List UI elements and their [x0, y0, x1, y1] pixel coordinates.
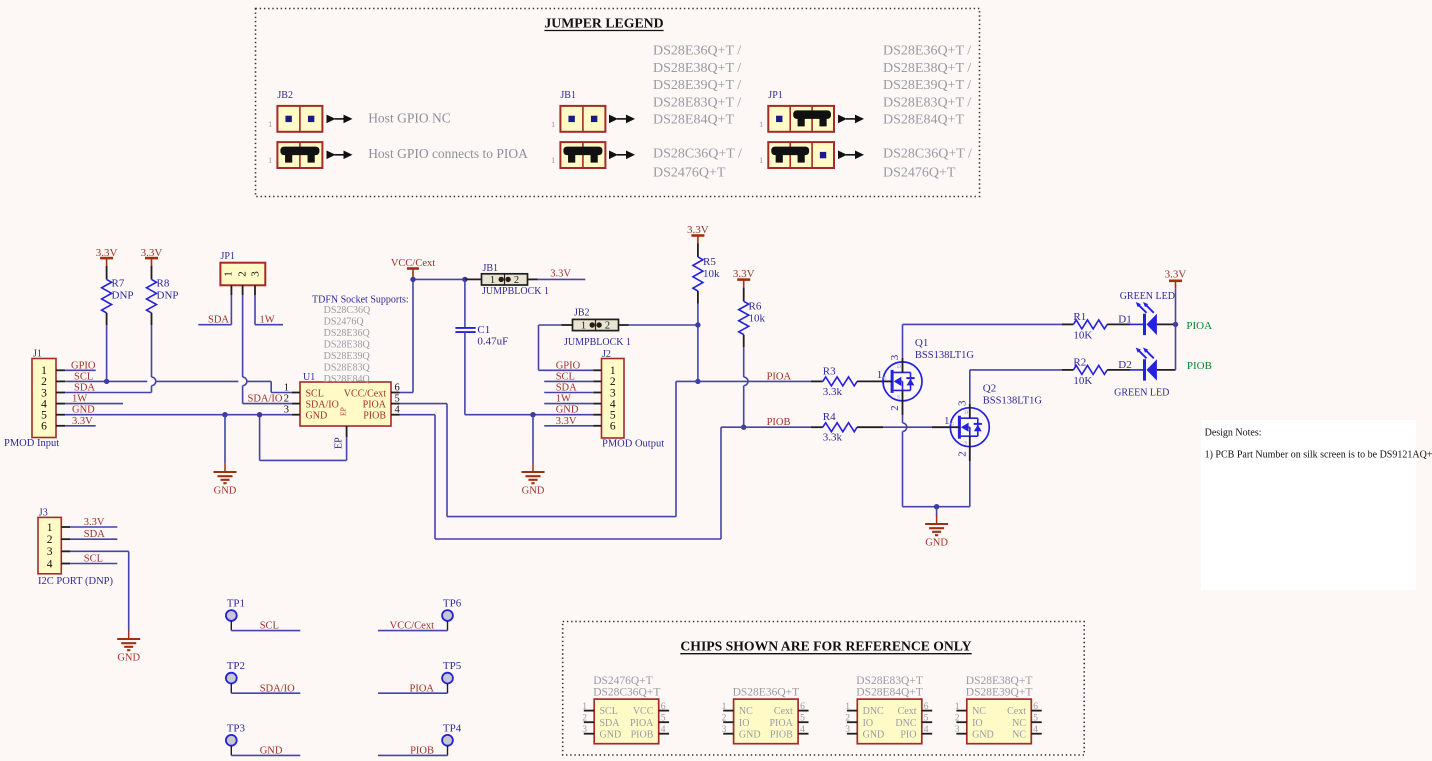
wire ground bus [903, 506, 970, 508]
svg-text:1: 1 [268, 119, 272, 129]
svg-text:SDA/IO: SDA/IO [248, 394, 283, 405]
legend text JP1 bottom device list [883, 147, 972, 181]
ground symbol at J1 side [214, 463, 237, 497]
svg-text:GND: GND [556, 405, 579, 416]
svg-text:3.3V: 3.3V [556, 416, 577, 427]
svg-text:VCC/Cext: VCC/Cext [390, 621, 434, 632]
net label 1W at J1 [65, 394, 123, 405]
svg-text:1W: 1W [556, 394, 571, 405]
net label SCL at J2 [544, 371, 593, 382]
svg-text:5: 5 [1033, 714, 1038, 724]
svg-text:1: 1 [551, 119, 555, 129]
svg-text:1: 1 [581, 321, 586, 332]
svg-text:2: 2 [722, 714, 727, 724]
wire PIOA from U1 pin5 [400, 381, 698, 516]
svg-text:PIOB: PIOB [1187, 360, 1212, 372]
J3 label I2C PORT (DNP) [38, 576, 114, 587]
reference chip DS28E38Q/DS28E39Q [955, 675, 1042, 744]
resistor R7 [102, 266, 134, 381]
svg-text:Cext: Cext [898, 706, 917, 717]
wire Q2 drain to R2 line [970, 370, 1062, 418]
net label GPIO at J1 [65, 360, 96, 371]
svg-text:2: 2 [955, 714, 960, 724]
svg-text:PIOB: PIOB [363, 411, 386, 422]
resistor R1 [1062, 311, 1130, 342]
legend text Host GPIO connects to PIOA [368, 146, 528, 161]
svg-text:0.47uF: 0.47uF [477, 336, 508, 348]
svg-text:R4: R4 [823, 411, 836, 423]
svg-text:TP3: TP3 [227, 722, 246, 734]
svg-text:2: 2 [605, 321, 610, 332]
svg-text:PIOA: PIOA [1186, 320, 1212, 332]
jumper legend title [544, 16, 663, 31]
wire Q1 source to ground bus [903, 390, 907, 506]
resistor R5 [693, 244, 720, 326]
svg-text:DS28E39Q: DS28E39Q [324, 351, 371, 362]
power 3.3V at R8 [141, 247, 163, 266]
svg-text:GREEN LED: GREEN LED [1114, 387, 1169, 398]
svg-text:PMOD Input: PMOD Input [4, 438, 59, 449]
svg-text:1) PCB Part Number on silk scr: 1) PCB Part Number on silk screen is to … [1205, 450, 1432, 461]
junction R5/JB2 [695, 322, 700, 327]
svg-text:GND: GND [972, 729, 994, 740]
svg-text:DS28E84Q: DS28E84Q [324, 374, 371, 385]
svg-text:TDFN Socket Supports:: TDFN Socket Supports: [312, 295, 409, 306]
svg-text:DNC: DNC [895, 718, 916, 729]
legend jumper JP1 top (2-3 shunted) [759, 106, 834, 132]
svg-text:DS2476Q+T: DS2476Q+T [593, 675, 653, 687]
ground symbol at transistors [925, 515, 948, 549]
wire J3 pin3 to ground [70, 551, 129, 630]
wire SDA/IO from JP1 pin2 to U1 pin2 [243, 295, 292, 405]
jumper block JB1 [482, 263, 549, 297]
svg-text:3.3k: 3.3k [823, 432, 843, 444]
svg-text:R7: R7 [112, 278, 125, 290]
svg-text:4: 4 [924, 725, 929, 735]
svg-text:PIOA: PIOA [767, 371, 792, 382]
svg-text:DS2476Q+T: DS2476Q+T [653, 166, 726, 181]
svg-text:GND: GND [306, 411, 328, 422]
svg-text:NC: NC [739, 706, 753, 717]
junction VCC/Cext at power stem [410, 277, 415, 282]
text supported device list [324, 305, 371, 385]
svg-text:GND: GND [117, 653, 140, 664]
svg-text:EP: EP [339, 407, 348, 416]
svg-text:CHIPS SHOWN ARE FOR REFERENCE: CHIPS SHOWN ARE FOR REFERENCE ONLY [680, 639, 971, 654]
reference chip DS2476Q/DS28C36Q [582, 675, 669, 744]
junction GND at J2 ground symbol [530, 412, 535, 417]
svg-text:Q2: Q2 [983, 383, 996, 395]
legend jumper JP1 label [768, 90, 782, 101]
resistor R4 [811, 411, 950, 444]
junction D1 at 3.3V rail [1173, 322, 1178, 327]
net label SDA at J2 [544, 383, 593, 394]
wire SDA from J1 pin3 to R8 [65, 325, 156, 394]
svg-text:6: 6 [1033, 702, 1038, 712]
svg-text:DNC: DNC [863, 706, 884, 717]
svg-text:3.3V: 3.3V [1165, 269, 1187, 281]
reference chips title [680, 639, 971, 654]
svg-text:4: 4 [800, 725, 805, 735]
resistor R8 [147, 266, 179, 325]
svg-text:6: 6 [661, 702, 666, 712]
svg-text:Cext: Cext [1007, 706, 1026, 717]
svg-text:SDA/IO: SDA/IO [260, 683, 295, 694]
svg-text:10K: 10K [1073, 375, 1092, 387]
svg-text:3: 3 [956, 400, 968, 406]
wire PIOB from U1 pin4 [400, 415, 744, 539]
svg-text:DS28E36Q+T /: DS28E36Q+T / [883, 44, 971, 59]
svg-text:1: 1 [582, 702, 587, 712]
svg-text:DS28E38Q+T /: DS28E38Q+T / [653, 61, 741, 76]
svg-text:Host GPIO connects to PIOA: Host GPIO connects to PIOA [368, 146, 528, 161]
net label SDA at J3 [70, 529, 117, 540]
net label SDA at JP1 pin1 [198, 295, 231, 326]
reference chips border [563, 622, 1084, 756]
ground symbol at J3 [117, 630, 140, 664]
svg-text:SCL: SCL [84, 554, 103, 565]
wire GND stem J2 side [532, 415, 534, 463]
svg-text:3: 3 [955, 725, 960, 735]
junction GND at EP return [257, 412, 262, 417]
svg-text:3: 3 [582, 725, 587, 735]
power 3.3V at R5 [687, 224, 709, 244]
svg-text:TP6: TP6 [443, 598, 462, 610]
power 3.3V at R6 [733, 268, 755, 287]
wire ground stem at bus [936, 507, 938, 516]
svg-text:GND: GND [600, 729, 622, 740]
svg-text:10K: 10K [1073, 330, 1092, 342]
svg-text:3: 3 [250, 271, 262, 277]
net label 3.3V at JB1 pin2 [528, 269, 586, 280]
junction R6/PIOB [741, 425, 746, 430]
svg-text:JB1: JB1 [483, 263, 499, 274]
svg-text:5: 5 [395, 394, 400, 405]
test point TP5 [378, 660, 462, 694]
wire Q2 source to ground bus [969, 436, 971, 507]
svg-text:DS28E36Q+T: DS28E36Q+T [733, 687, 800, 699]
svg-text:2: 2 [845, 714, 850, 724]
wire R5 node to PIOA line [697, 325, 699, 381]
svg-text:1: 1 [877, 369, 883, 381]
svg-text:DS28E38Q+T /: DS28E38Q+T / [883, 61, 971, 76]
svg-text:1: 1 [284, 383, 289, 394]
svg-text:D2: D2 [1118, 359, 1131, 371]
svg-text:Cext: Cext [774, 706, 793, 717]
svg-text:IO: IO [972, 718, 983, 729]
svg-text:1: 1 [759, 155, 763, 165]
junction R5/PIOA [695, 379, 700, 384]
wire GND from J1 pin5 to U1 pin3 [65, 405, 292, 416]
svg-text:DS28E39Q+T /: DS28E39Q+T / [653, 78, 741, 93]
legend arrow JB1 closed [609, 151, 635, 160]
svg-text:2: 2 [514, 275, 519, 286]
svg-text:6: 6 [924, 702, 929, 712]
svg-text:DS28E83Q: DS28E83Q [324, 363, 371, 374]
legend text JB1 closed device list [653, 147, 742, 181]
svg-text:GND: GND [522, 486, 545, 497]
svg-text:R8: R8 [157, 278, 170, 290]
wire JB2 pin1 to J2 pin1 GPIO [539, 325, 594, 371]
svg-text:5: 5 [661, 714, 666, 724]
svg-text:DS28E39Q+T /: DS28E39Q+T / [883, 78, 971, 93]
svg-text:1: 1 [759, 119, 763, 129]
reference chip DS28E36Q [722, 687, 809, 744]
design notes white panel [1201, 420, 1416, 590]
junction GND at J1 ground symbol [222, 412, 227, 417]
junction VCC/Cext at C1 [462, 277, 467, 282]
svg-text:R2: R2 [1073, 357, 1086, 369]
resistor R2 [1062, 357, 1130, 388]
svg-text:SCL: SCL [260, 621, 279, 632]
svg-text:DNP: DNP [112, 290, 134, 302]
legend text JP1 top device list [883, 44, 971, 128]
jumper legend border [256, 9, 980, 197]
wire PIOB line to R4 [744, 417, 811, 428]
svg-text:6: 6 [41, 421, 47, 433]
svg-text:1: 1 [722, 702, 727, 712]
legend arrow JP1 bottom [838, 151, 864, 160]
svg-text:SDA: SDA [600, 718, 621, 729]
legend arrow JB1 open [609, 115, 635, 124]
legend text JB1 open device list [653, 44, 741, 128]
svg-text:R5: R5 [703, 256, 716, 268]
jumper block JB2 [564, 308, 631, 348]
svg-text:DS28E36Q: DS28E36Q [324, 328, 371, 339]
svg-text:DS28E38Q: DS28E38Q [324, 340, 371, 351]
svg-text:R3: R3 [823, 365, 836, 377]
svg-text:SDA: SDA [208, 315, 229, 326]
svg-text:3: 3 [47, 546, 53, 558]
svg-text:DS28E83Q+T /: DS28E83Q+T / [883, 95, 971, 110]
net label 1W at JP1 pin3 [255, 295, 283, 326]
svg-text:5: 5 [924, 714, 929, 724]
legend arrow JB2 closed [327, 151, 353, 160]
svg-text:Design Notes:: Design Notes: [1205, 428, 1262, 439]
net label 3.3V at J2 [544, 416, 593, 427]
legend jumper JP1 bottom (1-2 shunted) [759, 142, 834, 168]
legend jumper JB2 open [268, 106, 322, 132]
wire Q1 drain to R1 line [903, 324, 1062, 372]
test point TP4 [378, 722, 462, 756]
wire SCL from J1 pin2 to U1 pin1 [65, 371, 292, 392]
legend jumper JB1 label [560, 90, 576, 101]
svg-text:GND: GND [214, 486, 237, 497]
power 3.3V at R7 [96, 247, 118, 266]
svg-text:1W: 1W [260, 315, 275, 326]
svg-text:JB2: JB2 [277, 90, 293, 101]
svg-text:SDA: SDA [74, 383, 95, 394]
svg-text:GPIO: GPIO [71, 360, 96, 371]
legend arrow JB2 open [327, 115, 353, 124]
svg-text:GND: GND [72, 405, 95, 416]
net label PIOB green [1187, 360, 1212, 372]
legend jumper JB1 open [551, 106, 605, 132]
wire JB2 pin2 to R5 node [619, 324, 698, 326]
svg-text:4: 4 [47, 558, 53, 570]
svg-text:3: 3 [722, 725, 727, 735]
wire 3.3V rail to LEDs [1175, 289, 1177, 370]
legend jumper JB1 closed [551, 142, 605, 168]
svg-text:DS28C36Q+T: DS28C36Q+T [593, 687, 660, 699]
legend jumper JB2 closed [268, 142, 322, 168]
svg-text:VCC/Cext: VCC/Cext [344, 388, 386, 399]
svg-text:PIOB: PIOB [631, 729, 654, 740]
svg-text:GND: GND [863, 729, 885, 740]
junction ground bus [934, 504, 939, 509]
wire VCC/Cext node to U1 pin6 [400, 279, 465, 392]
svg-text:6: 6 [610, 421, 616, 433]
svg-text:1: 1 [955, 702, 960, 712]
svg-text:GREEN LED: GREEN LED [1120, 291, 1175, 302]
svg-text:DS28E84Q+T: DS28E84Q+T [856, 687, 923, 699]
test point TP6 [378, 598, 462, 632]
svg-text:IO: IO [863, 718, 874, 729]
svg-text:JUMPBLOCK 1: JUMPBLOCK 1 [564, 337, 631, 348]
svg-text:DS2476Q+T: DS2476Q+T [883, 166, 956, 181]
power VCC/Cext [391, 258, 435, 279]
svg-text:GPIO: GPIO [556, 360, 581, 371]
svg-text:3.3V: 3.3V [72, 416, 93, 427]
jumper JP1 [220, 251, 265, 295]
svg-text:PIOA: PIOA [630, 718, 654, 729]
svg-text:PIOB: PIOB [767, 417, 791, 428]
svg-text:PIOA: PIOA [363, 399, 387, 410]
svg-text:S: S [897, 395, 900, 401]
ground symbol at J2 side [522, 463, 545, 497]
svg-text:JP1: JP1 [221, 251, 235, 262]
svg-text:GND: GND [739, 729, 761, 740]
svg-text:PIOA: PIOA [409, 683, 434, 694]
svg-text:NC: NC [1012, 718, 1026, 729]
svg-text:JP1: JP1 [768, 90, 782, 101]
connector J1 [32, 349, 65, 438]
svg-text:DS28C36Q+T /: DS28C36Q+T / [883, 147, 972, 162]
svg-text:DS28C36Q+T /: DS28C36Q+T / [653, 147, 742, 162]
svg-text:VCC: VCC [633, 706, 654, 717]
svg-text:D1: D1 [1118, 313, 1131, 325]
design notes text [1205, 428, 1432, 461]
svg-text:4: 4 [661, 725, 666, 735]
svg-text:1: 1 [47, 522, 53, 534]
svg-text:DS28E83Q+T: DS28E83Q+T [856, 675, 923, 687]
Q1 gate lead [883, 380, 892, 382]
IC U1 TDFN socket [284, 372, 401, 426]
wire VCC/Cext to JB1 [465, 278, 482, 280]
svg-text:1: 1 [490, 275, 495, 286]
svg-text:GND: GND [925, 538, 948, 549]
legend text Host GPIO NC [368, 110, 451, 125]
resistor R6 [739, 288, 766, 428]
LED D1 [1118, 302, 1175, 335]
svg-text:R6: R6 [749, 301, 762, 313]
svg-text:BSS138LT1G: BSS138LT1G [983, 395, 1043, 406]
net label 3.3V at J1 [65, 416, 96, 427]
net label 3.3V at J3 [70, 517, 117, 528]
svg-text:10k: 10k [703, 268, 720, 280]
J1 label PMOD Input [4, 438, 59, 449]
label GREEN LED D1 [1120, 291, 1175, 302]
svg-text:1W: 1W [72, 394, 87, 405]
svg-text:DS28E83Q+T /: DS28E83Q+T / [653, 95, 741, 110]
svg-text:S: S [964, 440, 967, 446]
svg-text:PIOB: PIOB [410, 746, 434, 757]
svg-text:NC: NC [1012, 729, 1026, 740]
svg-text:3: 3 [845, 725, 850, 735]
svg-text:C1: C1 [477, 324, 490, 336]
svg-text:5: 5 [800, 714, 805, 724]
svg-text:PMOD Output: PMOD Output [602, 439, 664, 450]
svg-text:DS28E39Q+T: DS28E39Q+T [966, 687, 1033, 699]
net label 1W at J2 [544, 394, 593, 405]
J2 label PMOD Output [602, 439, 664, 450]
test point TP1 [226, 598, 300, 632]
Q2 gate lead [950, 426, 959, 428]
svg-text:I2C PORT (DNP): I2C PORT (DNP) [38, 576, 114, 587]
svg-text:2: 2 [582, 714, 587, 724]
svg-text:BSS138LT1G: BSS138LT1G [915, 350, 975, 361]
svg-text:D: D [964, 410, 968, 416]
label TDFN Socket Supports [312, 295, 409, 306]
connector J3 [38, 508, 70, 574]
svg-text:DS28E84Q+T: DS28E84Q+T [653, 113, 734, 128]
svg-text:2: 2 [237, 271, 249, 277]
svg-text:NC: NC [972, 706, 986, 717]
svg-text:2: 2 [47, 534, 53, 546]
transistor Q1 [877, 337, 975, 411]
svg-text:JB1: JB1 [560, 90, 576, 101]
power 3.3V at LED rail [1165, 269, 1187, 289]
legend arrow JP1 top [838, 115, 864, 124]
svg-text:3.3V: 3.3V [687, 224, 709, 236]
svg-text:SCL: SCL [306, 388, 324, 399]
label GREEN LED D2 [1114, 387, 1169, 398]
net label SCL at J3 [70, 554, 117, 565]
connector J2 [593, 349, 624, 438]
reference chip DS28E83Q/DS28E84Q [845, 675, 932, 744]
svg-text:GND: GND [260, 746, 283, 757]
svg-text:JUMPER LEGEND: JUMPER LEGEND [544, 16, 663, 31]
svg-text:SDA/IO: SDA/IO [306, 399, 339, 410]
svg-text:TP2: TP2 [227, 660, 245, 672]
svg-text:3.3V: 3.3V [550, 269, 571, 280]
svg-text:2: 2 [889, 405, 901, 411]
svg-text:3.3k: 3.3k [823, 386, 843, 398]
capacitor C1 [455, 279, 508, 414]
svg-text:TP4: TP4 [443, 722, 462, 734]
svg-text:1: 1 [223, 271, 235, 277]
svg-text:1: 1 [551, 155, 555, 165]
legend jumper JB2 label [277, 90, 293, 101]
svg-text:6: 6 [395, 383, 400, 394]
wire GND from C1 to J2 pin5 [465, 405, 593, 416]
svg-text:1: 1 [268, 155, 272, 165]
svg-text:SCL: SCL [600, 706, 618, 717]
svg-text:1: 1 [944, 415, 950, 427]
test point TP2 [226, 660, 300, 694]
svg-text:DS28E84Q+T: DS28E84Q+T [883, 113, 964, 128]
svg-text:PIOA: PIOA [769, 718, 793, 729]
svg-text:4: 4 [1033, 725, 1038, 735]
svg-text:EP: EP [334, 437, 345, 449]
svg-text:DS28E38Q+T: DS28E38Q+T [966, 675, 1033, 687]
wire GND stem J1 side [224, 415, 226, 463]
LED D2 [1118, 348, 1175, 381]
svg-text:1: 1 [845, 702, 850, 712]
svg-text:TP5: TP5 [443, 660, 462, 672]
svg-text:DS28C36Q: DS28C36Q [324, 305, 371, 316]
junction SCL/R7 [104, 379, 109, 384]
